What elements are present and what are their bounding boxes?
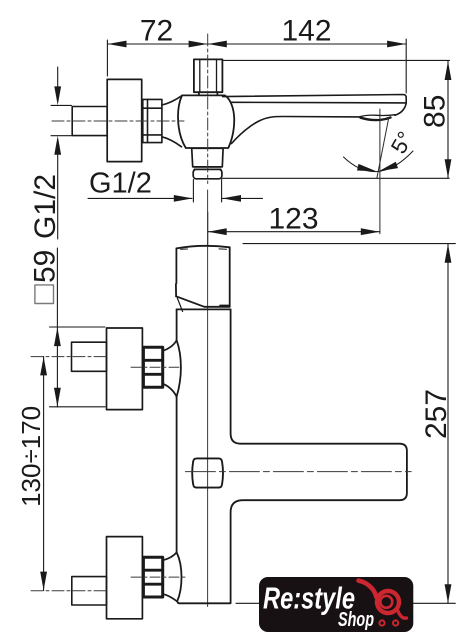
logo box	[259, 577, 413, 632]
arrow 85 top	[445, 61, 452, 80]
svg-text:142: 142	[281, 15, 331, 48]
handle front view	[176, 246, 230, 312]
body barrel (side view)	[178, 95, 234, 148]
bottom nut flare	[163, 552, 177, 601]
svg-text:123: 123	[268, 203, 318, 236]
arrow 257 up	[445, 244, 452, 263]
logo cart wheel left	[379, 620, 384, 625]
dimension G1/2 pipe diameter left	[51, 67, 72, 239]
body top line	[177, 308, 231, 310]
hex nut (side view)	[143, 99, 162, 142]
arrow 72 left	[108, 41, 127, 48]
top pipe centerline	[31, 356, 109, 358]
svg-text:130÷170: 130÷170	[16, 406, 46, 507]
wall pipe left (side view)	[72, 107, 107, 136]
leader line G1/2	[88, 180, 263, 203]
outlet ring	[194, 167, 221, 169]
handle knob top (side view)	[194, 59, 223, 95]
bottom wall pipe front	[72, 577, 107, 605]
square symbol	[35, 285, 54, 304]
wall flange (side view)	[107, 79, 142, 161]
arrow 257 down	[445, 584, 452, 603]
top wall flange front	[107, 328, 143, 410]
bottom wall flange front	[107, 537, 143, 619]
arrow 130 up	[40, 357, 47, 376]
dimension 123	[208, 212, 380, 245]
dimension 85 right	[221, 60, 449, 178]
bottom pipe centerline	[31, 590, 109, 592]
arrow 130 down	[40, 572, 47, 591]
svg-text:72: 72	[140, 15, 173, 48]
dimension square 59	[50, 248, 106, 407]
outlet neck under body	[192, 148, 223, 167]
arrow leader left-point	[222, 195, 241, 202]
centerline horizontal left connector	[52, 120, 184, 122]
centerline vertical main axis upper	[207, 34, 209, 184]
svg-text:Shop: Shop	[338, 609, 374, 631]
top hex nut front	[143, 347, 162, 387]
arrow 123 left	[208, 228, 227, 235]
logo cart wheel right	[393, 620, 398, 625]
svg-text:G1/2: G1/2	[29, 174, 62, 239]
lower body outline	[177, 309, 407, 603]
dimension 257	[236, 244, 455, 604]
arrow 85 bottom	[445, 159, 452, 178]
handle dome ticks	[181, 249, 229, 306]
svg-text:85: 85	[418, 95, 451, 128]
diverter knob front	[192, 458, 223, 487]
main axis lower	[207, 190, 209, 607]
arrow G1/2 up	[54, 136, 61, 155]
flare nut to body	[162, 96, 182, 147]
outlet tilted axis 5deg	[377, 118, 389, 179]
svg-text:G1/2: G1/2	[89, 168, 152, 200]
arrow 123 right	[361, 228, 380, 235]
top nut flare	[163, 340, 177, 396]
knob centerline horizontal	[185, 471, 411, 473]
arc arrow left	[357, 164, 377, 172]
logo at-cart symbol	[359, 581, 407, 619]
svg-text:59: 59	[29, 250, 62, 283]
arrow 59 up	[54, 327, 61, 346]
outlet end cap	[193, 169, 222, 178]
arrow 59 down	[54, 388, 61, 407]
outlet axis vertical	[379, 109, 381, 234]
arrow 142 left	[208, 41, 227, 48]
angle arc 5deg	[344, 151, 414, 172]
bottom hex nut front	[143, 557, 162, 597]
dimension line 72	[107, 39, 406, 93]
spout (side view)	[223, 95, 407, 144]
bottom nut centerline	[131, 576, 187, 578]
svg-text:257: 257	[420, 389, 453, 439]
arc arrow right	[379, 162, 398, 172]
arrow 142 right	[387, 41, 406, 48]
top wall pipe front	[72, 342, 107, 371]
spout aerator	[359, 115, 395, 120]
arrow leader right-point	[174, 195, 193, 202]
dimension 130-170	[43, 356, 45, 590]
top nut centerline	[131, 366, 182, 368]
arrow 72 right	[189, 41, 208, 48]
arrow G1/2 down	[54, 86, 61, 105]
